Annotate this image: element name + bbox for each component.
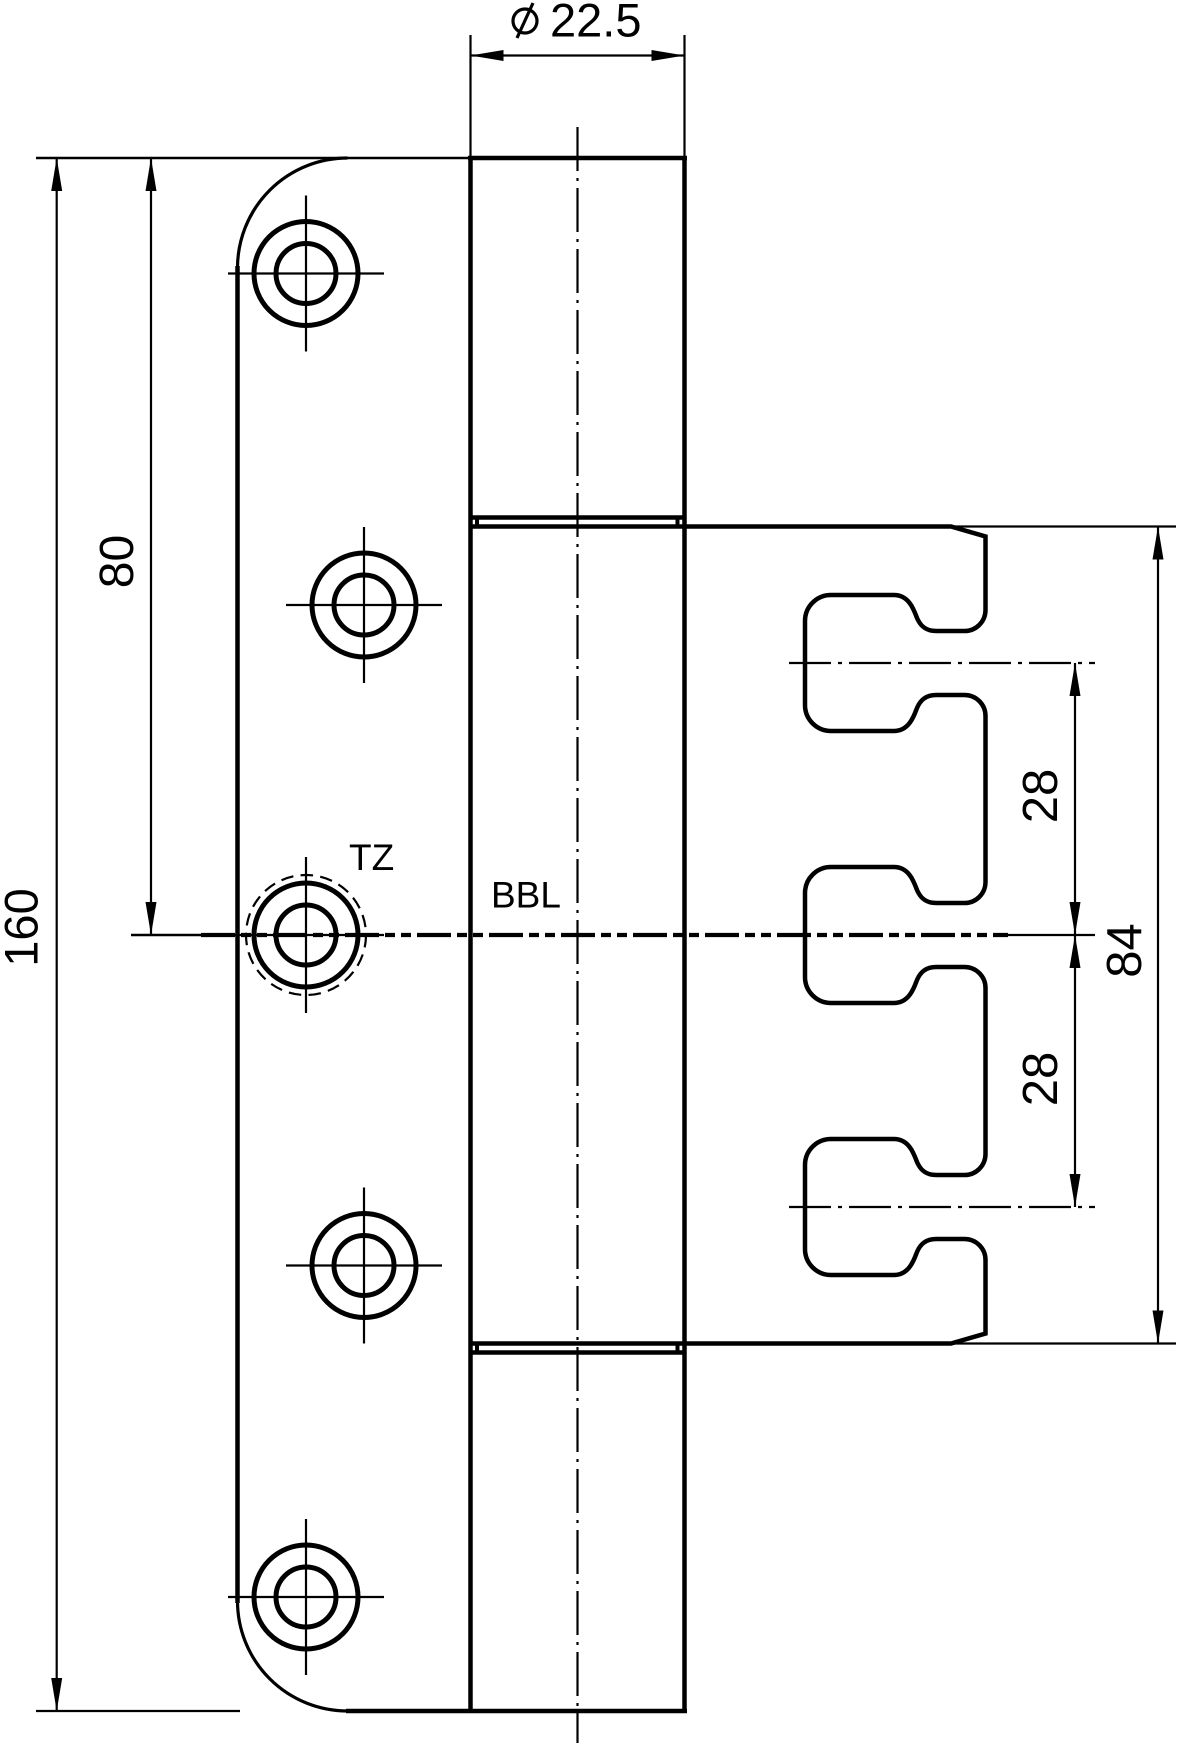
barrel left edge xyxy=(468,158,473,1711)
hinge leaf plate left edge xyxy=(235,266,240,1603)
screw hole 3 inner xyxy=(276,905,336,965)
svg-text:28: 28 xyxy=(1014,769,1068,824)
dim 84 line xyxy=(1157,527,1159,1344)
dim 28 lower line xyxy=(1074,935,1076,1207)
hinge leaf plate top corner arc xyxy=(238,158,348,268)
knuckle gap connector right bottom xyxy=(676,1344,680,1353)
svg-text:84: 84 xyxy=(1098,923,1152,978)
dim 160 line xyxy=(56,158,58,1711)
knuckle gap connector left top xyxy=(475,518,479,527)
dim 160 arrow bottom xyxy=(51,1678,62,1711)
screw hole 5 inner xyxy=(276,1567,336,1627)
dim 84 arrow top xyxy=(1153,527,1164,560)
dim 28 lower arrow bottom xyxy=(1070,1174,1081,1207)
BBL horizontal centre line thick dashes xyxy=(201,933,1008,937)
svg-text:22.5: 22.5 xyxy=(550,0,641,47)
dim 22.5 line xyxy=(471,54,685,56)
dim 80 arrow bottom xyxy=(146,902,157,935)
plate top edge thin segment xyxy=(36,157,471,159)
screw hole 3 vertical crosshair xyxy=(305,857,307,1013)
bottom knuckle top face xyxy=(471,1350,685,1355)
barrel top edge xyxy=(468,156,687,161)
dim 28 upper arrow top xyxy=(1070,663,1081,696)
screw hole 2 inner xyxy=(334,575,394,635)
svg-text:BBL: BBL xyxy=(491,875,561,916)
barrel right edge xyxy=(682,158,687,1711)
dim 28 upper arrow bottom xyxy=(1070,902,1081,935)
dim 80 line xyxy=(150,158,152,935)
screw hole 3 (TZ) outer xyxy=(254,883,358,987)
knuckle gap connector right top xyxy=(676,518,680,527)
vertical barrel axis centre line xyxy=(576,127,578,1743)
knuckle gap connector left bottom xyxy=(475,1344,479,1353)
screw hole 3 horizontal crosshair xyxy=(228,934,384,936)
dim 22.5 extension left xyxy=(469,35,471,158)
svg-text:28: 28 xyxy=(1014,1052,1068,1107)
dim 22.5 extension right xyxy=(683,35,685,158)
svg-text:160: 160 xyxy=(0,888,48,966)
slot 3 centre line xyxy=(789,1206,1095,1208)
dim 28 lower arrow top xyxy=(1070,935,1081,968)
dim 28 upper line xyxy=(1074,663,1076,935)
screw hole 1 crosshair xyxy=(228,272,384,274)
screw hole 4 crosshair xyxy=(286,1264,442,1266)
BBL horizontal centre line thin lead xyxy=(131,934,201,937)
top knuckle bottom face xyxy=(471,515,685,520)
dim 22.5 diameter symbol xyxy=(513,3,537,38)
hinge leaf plate bottom corner arc xyxy=(238,1601,348,1711)
screw hole 4 outer xyxy=(312,1214,416,1318)
screw hole 1 inner xyxy=(276,244,336,304)
TZ dashed circle xyxy=(246,875,366,995)
screw hole 4 inner xyxy=(334,1236,394,1296)
screw hole 5 outer xyxy=(254,1545,358,1649)
dim 84 extension top xyxy=(951,525,1176,527)
dim 80 arrow top xyxy=(146,158,157,191)
svg-text:TZ: TZ xyxy=(349,837,394,878)
dim 22.5 arrow right xyxy=(652,50,685,61)
dim 22.5 arrow left xyxy=(471,50,504,61)
screw hole 2 crosshair xyxy=(286,604,442,606)
screw hole 1 outer xyxy=(254,222,358,326)
dim 84 extension bottom xyxy=(951,1342,1176,1344)
dim 160 extension bottom xyxy=(36,1710,240,1712)
screw hole 5 crosshair xyxy=(228,1596,384,1598)
dim 84 arrow bottom xyxy=(1153,1311,1164,1344)
BBL horizontal centre line thin tail xyxy=(1008,934,1095,936)
barrel bottom edge xyxy=(346,1709,687,1714)
svg-text:80: 80 xyxy=(91,535,144,588)
dim 160 arrow top xyxy=(51,158,62,191)
frame leaf with three castellated slots xyxy=(471,527,986,1344)
screw hole 2 outer xyxy=(312,553,416,657)
slot 1 centre line xyxy=(789,662,1095,664)
